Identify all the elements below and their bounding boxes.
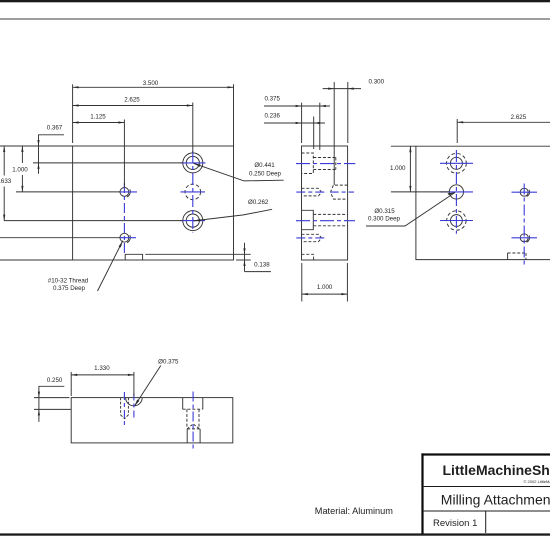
svg-text:1.000: 1.000 [390, 165, 406, 172]
view3 notch [507, 253, 509, 260]
leader 0.375 hole [135, 366, 161, 406]
centerline h row1 [181, 162, 206, 164]
view1 outline [73, 146, 234, 260]
ext line row2 left [391, 191, 449, 193]
svg-text:2.625: 2.625 [511, 114, 527, 121]
view1 0.138 step line [145, 253, 233, 255]
centerline vertical large hole column [192, 151, 194, 233]
dim 1.000 left [21, 146, 23, 163]
hidden hole 0.315 row2 right [331, 185, 348, 199]
ext vertical right edge up [233, 84, 235, 146]
hidden hole circle middle [185, 184, 201, 200]
tapped holes col2 [520, 188, 528, 196]
dim 1.000 [409, 146, 411, 192]
svg-text:0.138: 0.138 [254, 262, 270, 269]
dim 2.625 [457, 121, 550, 123]
svg-text:1.000: 1.000 [12, 167, 28, 174]
ext vertical left edge up [301, 103, 303, 143]
svg-text:1.330: 1.330 [94, 365, 110, 372]
svg-text:2.625: 2.625 [124, 96, 140, 103]
sheet top border thin inner [0, 18, 550, 20]
ext vertical 2.625 [456, 119, 458, 143]
ext line top edge left [391, 145, 416, 147]
svg-text:0.300 Deep: 0.300 Deep [368, 216, 401, 223]
ext vertical left edge up [70, 372, 72, 396]
svg-text:Material: Aluminum: Material: Aluminum [315, 506, 393, 516]
tapped hole 1 [120, 188, 129, 197]
dim 0.250 [39, 386, 64, 422]
svg-text:0.300: 0.300 [369, 78, 385, 85]
counterbore row3 outer solid [302, 210, 314, 229]
ext vertical large col up [192, 103, 194, 153]
svg-text:Ø0.262: Ø0.262 [248, 199, 269, 206]
hole 0.375 arc [126, 398, 143, 406]
hidden hole 0.262 [187, 409, 199, 427]
svg-text:1.000: 1.000 [317, 284, 333, 291]
centerline v 0.375 hole [133, 394, 135, 418]
dim 0.236 [264, 122, 325, 124]
ext vertical 0.375 [319, 103, 321, 150]
svg-text:0.375: 0.375 [264, 96, 280, 103]
ext vertical right edge up [347, 82, 349, 143]
ext line bottom right [236, 259, 251, 261]
svg-text:Milling Attachment, 7x10: Milling Attachment, 7x10 [441, 491, 550, 507]
centerline v cbore col [192, 392, 194, 451]
ext line row3 [4, 220, 183, 222]
svg-text:3.500: 3.500 [143, 80, 159, 87]
dim 3.500 [73, 86, 234, 88]
sheet bottom border thick [0, 533, 550, 535]
tapped hole 2 [120, 233, 129, 242]
centerline h row2 small [119, 191, 137, 193]
hidden step bottom-left [302, 254, 314, 260]
dim 0.300 [323, 88, 361, 90]
ext line row4 [0, 237, 120, 239]
centerline h row1 [440, 162, 473, 164]
ext vertical hole CL up [133, 372, 135, 396]
centerline row3 [296, 220, 355, 222]
svg-text:Ø0.315: Ø0.315 [374, 208, 395, 215]
ext vertical bottom left [301, 263, 303, 302]
ext line top edge left [34, 397, 70, 399]
ext line top edge left [0, 145, 73, 147]
svg-text:1.633: 1.633 [0, 178, 12, 185]
ext line row1 [33, 162, 183, 164]
svg-text:Ø0.375: Ø0.375 [158, 359, 179, 366]
hidden hole row3 inner through [313, 214, 347, 225]
hole row1: through solid + hidden cbore [450, 157, 462, 169]
centerline row2 [296, 191, 327, 193]
ext line bottom edge left [0, 259, 73, 261]
counterbore hole top outer [183, 153, 203, 173]
centerline h row2 large [181, 191, 206, 193]
centerline h row3 [440, 220, 473, 222]
dim 2.625 [73, 105, 193, 107]
hidden thread hole row2 left [302, 188, 322, 196]
ext vertical 0.236 [313, 117, 315, 150]
centerline row1 [296, 163, 355, 165]
centerline v col1 [455, 150, 457, 234]
view1 notch [125, 254, 142, 260]
hole 0.315 from bottom [187, 424, 200, 429]
ext vertical small col up [123, 120, 125, 188]
svg-text:0.236: 0.236 [264, 113, 280, 120]
dim 0.375 [264, 105, 330, 107]
centerline v col2 [523, 184, 525, 267]
ext vertical left edge up [72, 84, 74, 143]
dim 1.125 [73, 122, 125, 124]
counterbore hole bottom outer [183, 211, 203, 231]
hidden counterbore row1 outer [302, 153, 314, 174]
divider 1 [424, 486, 550, 488]
centerline h row3 [181, 220, 206, 222]
centerline h col2 row4 [512, 237, 538, 239]
svg-text:0.250 Deep: 0.250 Deep [249, 170, 282, 177]
svg-text:#10-32 Thread: #10-32 Thread [48, 278, 89, 285]
ext vertical 0.300 left [333, 82, 335, 185]
hidden cbore col [183, 398, 203, 410]
title block left border [421, 453, 423, 534]
ext vertical bottom right [346, 263, 348, 302]
centerline v thread [123, 392, 125, 427]
svg-text:Ø0.441: Ø0.441 [254, 162, 275, 169]
sheet top border thick [0, 0, 550, 2]
hole row2 0.315 [449, 185, 463, 199]
svg-text:1.125: 1.125 [90, 113, 106, 120]
svg-text:Revision 1: Revision 1 [433, 518, 477, 529]
svg-text:0.375 Deep: 0.375 Deep [53, 285, 86, 292]
dim 1.330 [71, 374, 134, 376]
revision cell divider [485, 511, 487, 533]
centerline h col2 row2 [512, 191, 538, 193]
svg-text:LittleMachineShop.com: LittleMachineShop.com [443, 462, 550, 478]
centerline h row4 [120, 237, 137, 239]
title block top border [421, 453, 550, 455]
counterbore hole top inner [186, 156, 199, 169]
leader 10-32 thread [98, 241, 123, 291]
ext line cbore depth left [34, 408, 71, 410]
ext line step right [234, 253, 251, 255]
leader counterbore 0.441 [194, 163, 284, 181]
view4 outline [71, 398, 233, 443]
hole row3: through solid + hidden cbore [451, 215, 463, 227]
svg-text:0.367: 0.367 [47, 124, 63, 131]
centerline row4 [296, 237, 326, 239]
dim 1.633 left [3, 146, 5, 176]
svg-text:© 2002 LittleMachineShop.com: © 2002 LittleMachineShop.com [524, 479, 550, 484]
svg-text:0.250: 0.250 [47, 377, 63, 384]
centerline vertical small hole column [123, 183, 125, 254]
leader 0.315 [366, 193, 455, 227]
centerline h row2 [440, 191, 473, 193]
dim 1.000 bottom [302, 293, 348, 295]
hidden hole row1 inner [313, 158, 336, 170]
counterbore hole bottom inner [186, 214, 199, 227]
leader hole 0.262 [194, 209, 273, 221]
dim 0.138 [244, 243, 246, 272]
divider 2 [424, 510, 550, 512]
view3 outline [416, 146, 550, 259]
hidden thread hole row4 [302, 234, 322, 241]
view2 outline [302, 146, 348, 260]
dim 0.367 [39, 135, 65, 174]
hidden thread hole [121, 398, 129, 419]
ext line row2 [16, 191, 120, 193]
